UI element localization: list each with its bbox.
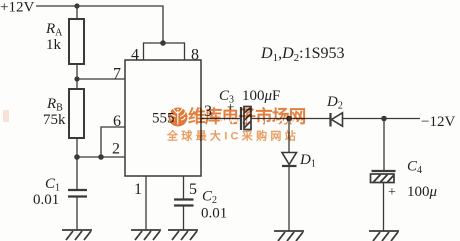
wire C3 to D2 xyxy=(251,118,330,120)
resistor RA body xyxy=(69,19,84,64)
svg-text:+12V: +12V xyxy=(0,0,34,16)
wire C4 to ground xyxy=(383,183,385,232)
svg-text:5: 5 xyxy=(189,181,197,198)
node D1 branch junction xyxy=(286,116,292,122)
svg-text:C2: C2 xyxy=(202,189,217,207)
svg-text:+: + xyxy=(388,185,396,200)
capacitor C3 electrolytic xyxy=(241,107,251,131)
wire supply to RA xyxy=(76,6,78,19)
capacitor C1 plates xyxy=(68,190,87,197)
ground D1 xyxy=(274,231,304,241)
wire RB to C1 xyxy=(76,138,78,189)
svg-text:75k: 75k xyxy=(43,112,66,128)
wire C4 branch xyxy=(383,119,385,172)
wire pin 6 bracket xyxy=(101,127,125,157)
diode D1 cathode bar xyxy=(282,165,297,167)
svg-text:2: 2 xyxy=(112,141,120,158)
wire D1 branch xyxy=(288,119,290,153)
wire pins 4-8 bracket xyxy=(144,43,185,60)
wire pin 3 stub xyxy=(201,118,240,120)
wire C2 to ground xyxy=(183,206,185,231)
wire pin 2 stub xyxy=(77,156,125,158)
node pin7 junction xyxy=(74,76,79,81)
diode D2 cathode bar xyxy=(329,113,331,127)
wire pin 5 xyxy=(183,176,185,199)
wire D1 to ground xyxy=(288,166,290,231)
svg-text:4: 4 xyxy=(131,47,139,64)
svg-text:6: 6 xyxy=(113,113,121,130)
watermark left edge fragment xyxy=(3,110,9,122)
ground C2 xyxy=(168,230,198,240)
watermark logo circle xyxy=(169,105,188,126)
svg-text:D2: D2 xyxy=(326,94,343,112)
wire D2 to output xyxy=(343,118,421,120)
svg-text:−12V: −12V xyxy=(421,114,455,130)
IC U1 555 timer box xyxy=(125,60,201,176)
node bracket junction xyxy=(160,40,166,46)
svg-text:100μ: 100μ xyxy=(407,184,438,200)
wire pin 1 xyxy=(145,176,147,230)
svg-text:全球最大IC采购网站: 全球最大IC采购网站 xyxy=(166,129,299,143)
svg-text:7: 7 xyxy=(113,66,121,83)
svg-text:1: 1 xyxy=(134,181,142,198)
svg-text:WWW.DZSC.COM: WWW.DZSC.COM xyxy=(219,117,296,126)
svg-text:0.01: 0.01 xyxy=(33,192,59,208)
wire C1 to ground xyxy=(76,197,78,231)
resistor RB body xyxy=(69,89,84,138)
capacitor C2 plates xyxy=(174,200,194,206)
node C4 branch junction xyxy=(381,116,387,122)
svg-text:1k: 1k xyxy=(46,37,62,53)
ground pin 1 xyxy=(131,230,161,240)
ground C4 xyxy=(369,231,399,241)
svg-text:0.01: 0.01 xyxy=(201,206,227,222)
svg-text:8: 8 xyxy=(191,47,199,64)
wire pin 7 stub xyxy=(77,78,125,80)
ground C1 xyxy=(62,230,92,240)
svg-text:C4: C4 xyxy=(407,159,422,177)
svg-text:D1,D2:1S953: D1,D2:1S953 xyxy=(260,45,344,64)
svg-text:RA: RA xyxy=(45,21,63,39)
svg-text:100μF: 100μF xyxy=(242,88,280,104)
svg-text:RB: RB xyxy=(46,96,63,114)
capacitor C4 electrolytic xyxy=(371,171,396,183)
diode D2 triangle xyxy=(332,113,343,126)
node supply junction above RA xyxy=(74,3,79,8)
wire RA to RB xyxy=(76,64,78,89)
node RB-C1-pin2 junction xyxy=(74,154,80,160)
node pin6 junction xyxy=(98,154,104,160)
wire +12V rail top xyxy=(36,6,163,43)
diode D1 triangle xyxy=(282,153,297,165)
svg-text:D1: D1 xyxy=(299,152,316,170)
svg-text:C1: C1 xyxy=(45,176,60,194)
